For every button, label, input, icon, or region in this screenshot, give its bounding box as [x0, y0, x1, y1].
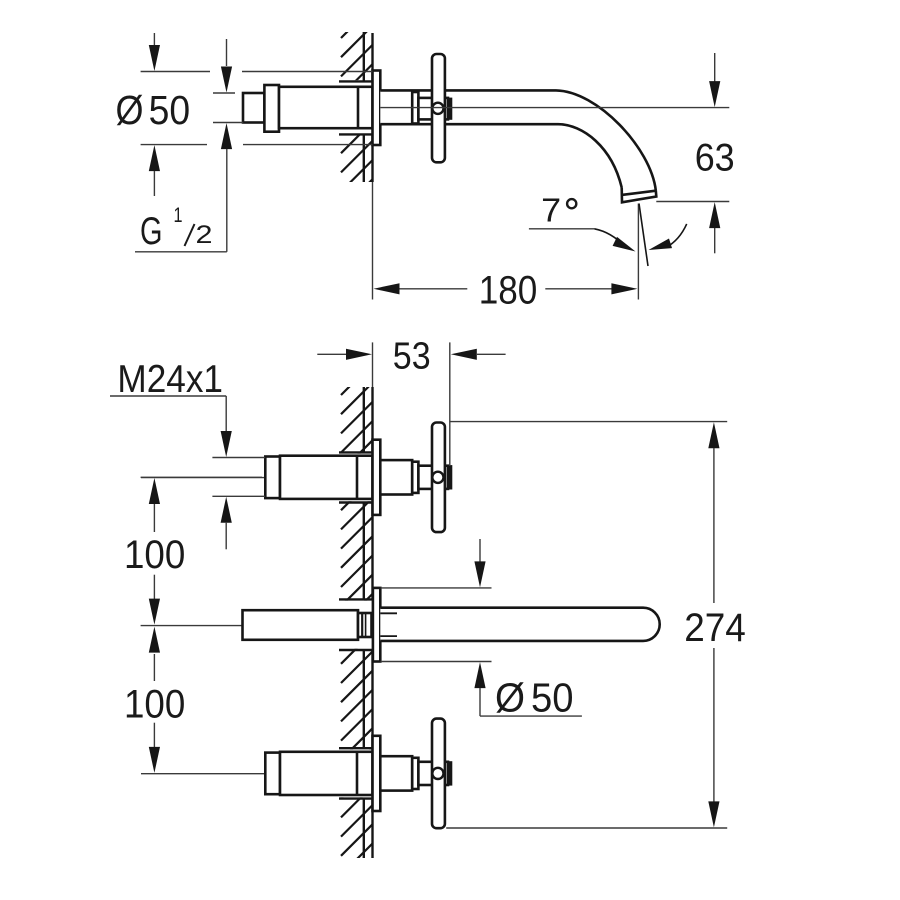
- svg-text:50: 50: [531, 675, 574, 721]
- spindle (lower valve): [380, 756, 412, 790]
- escutcheon rosette (side view): [373, 71, 381, 146]
- Ø50 lower extension line: [141, 144, 207, 146]
- valve body groove (lower valve): [356, 752, 359, 795]
- wall face line (top view): [371, 33, 373, 81]
- valve body groove near wall: [357, 87, 360, 128]
- G1/2 label underline: [135, 251, 227, 253]
- 53 dimension line right part: [477, 353, 506, 355]
- 7deg right arc with arrowhead: [666, 224, 687, 248]
- valve cartridge body: [279, 87, 373, 128]
- valve body (lower valve): [280, 752, 373, 795]
- Ø50b down arrow: [479, 539, 481, 562]
- spout tube step lines: [380, 612, 397, 614]
- 180 extension line right (spout tip): [637, 204, 639, 300]
- spout inner (bottom) contour: [380, 124, 621, 187]
- wall face extension up to 53 dim: [372, 342, 374, 387]
- handle screw circle (side view): [432, 103, 443, 114]
- handle collar (upper valve): [412, 462, 418, 493]
- valve axis centerline (doubles as 63-dim upper extension): [380, 107, 729, 109]
- M24x1 lower extension line: [212, 495, 265, 497]
- union nut cap (lower valve): [265, 753, 280, 795]
- spout connector detail lines: [361, 613, 363, 637]
- handle screw circle (upper valve): [432, 472, 443, 483]
- wall section hatching (top view): [341, 7, 373, 211]
- wall section hatching (bottom view): [341, 364, 373, 876]
- pipe centerline stub (lower valve): [141, 773, 265, 775]
- 100a lower shaft and down arrow: [153, 575, 155, 600]
- spout outer (top) contour: [380, 90, 656, 190]
- M24x1 up arrow: [221, 497, 232, 523]
- spout escutcheon: [373, 588, 380, 662]
- svg-text:180: 180: [479, 269, 538, 313]
- svg-text:100: 100: [124, 533, 185, 577]
- wall face extension line down to 180 dim: [372, 182, 374, 300]
- 274 down arrow: [713, 648, 715, 804]
- G1/2 upper extension line: [213, 92, 235, 94]
- M24x1 leader with down arrow: [225, 396, 227, 434]
- svg-text:M24x1: M24x1: [117, 358, 223, 401]
- Ø50b lower extension line: [381, 661, 492, 663]
- wall opening gap (top view): [337, 80, 381, 135]
- spout tube (side view) white fill: [380, 90, 656, 202]
- wall opening edges (bottom view): [339, 451, 373, 453]
- 7deg left arc with arrowhead: [594, 229, 625, 247]
- 7deg spray direction line (tilted 7deg): [639, 204, 648, 267]
- handle hub front plate (upper valve): [448, 466, 451, 488]
- handle hub (side view): [418, 98, 448, 120]
- valve threaded inlet tip G1/2: [243, 93, 264, 123]
- wall opening gaps (bottom view): [337, 454, 381, 502]
- svg-text:100: 100: [124, 682, 185, 726]
- 100a upper extension line (valve axis): [141, 476, 262, 478]
- svg-text:7: 7: [541, 192, 561, 229]
- svg-text:274: 274: [684, 606, 746, 650]
- 274 up arrow: [708, 422, 719, 448]
- valve union nut ring: [264, 85, 279, 132]
- spout tube (front projection): [380, 608, 659, 641]
- G1/2 lower extension line: [213, 122, 243, 124]
- wall opening edge top (top view): [339, 80, 373, 82]
- wall face line (bottom view): [371, 387, 373, 452]
- Ø50b upper extension line: [381, 587, 492, 589]
- union nut cap (upper valve): [265, 457, 280, 499]
- M24x1 label underline: [110, 395, 226, 397]
- 100a up arrow: [149, 478, 160, 504]
- svg-text:50: 50: [149, 87, 191, 133]
- svg-text:Ø: Ø: [495, 675, 525, 721]
- svg-text:53: 53: [393, 335, 431, 377]
- Ø50b label underline: [480, 715, 582, 717]
- escutcheon (upper valve): [373, 440, 381, 515]
- svg-text:G: G: [140, 210, 163, 253]
- 274 lower extension line: [446, 827, 727, 829]
- handle hub front plate (lower valve): [448, 762, 451, 784]
- G1/2 up arrow leader: [221, 123, 232, 149]
- svg-text:1: 1: [174, 204, 183, 227]
- spout aerator end band: [622, 188, 657, 203]
- 100b lower shaft and down arrow: [153, 723, 155, 748]
- valve body (upper valve): [280, 456, 373, 499]
- handle hub (upper valve): [418, 466, 448, 489]
- 63 lower extension line: [656, 201, 729, 203]
- pipe centerline stub (upper valve): [141, 477, 265, 479]
- cross-handle bar (side view): [432, 54, 445, 162]
- wall inner line (top view): [363, 32, 365, 81]
- 180 dimension line: [399, 288, 467, 290]
- 100b up arrow: [149, 627, 160, 653]
- handle hub front plate (side view): [448, 99, 451, 119]
- cross-handle bar (lower valve): [432, 719, 445, 829]
- Ø50 down arrow: [153, 33, 155, 47]
- handle hub (lower valve): [418, 762, 448, 785]
- 274 upper extension line: [450, 421, 728, 423]
- 180 left arrow: [374, 283, 400, 294]
- M24x1 upper extension line: [212, 457, 265, 459]
- svg-text:2: 2: [196, 221, 213, 249]
- 53 right arrow (points left at handle face): [451, 349, 477, 360]
- wall inner line (bottom view): [363, 387, 365, 452]
- 63 up arrow: [709, 202, 720, 228]
- 53 dimension line left part: [317, 353, 346, 355]
- valve body groove (upper valve): [356, 456, 359, 499]
- spout wall connector: [358, 613, 372, 637]
- Ø50 up arrow: [149, 145, 160, 171]
- 180 right arrow: [611, 283, 637, 294]
- escutcheon (lower valve): [373, 736, 381, 811]
- cross-handle bar (upper valve): [432, 423, 445, 533]
- svg-text:Ø: Ø: [116, 87, 144, 133]
- spout inlet centerline stub: [141, 625, 243, 627]
- G1/2 down arrow: [226, 39, 228, 66]
- spindle (upper valve): [380, 460, 412, 494]
- svg-text:63: 63: [695, 137, 735, 180]
- handle collar (lower valve): [412, 758, 418, 789]
- handle screw circle (lower valve): [432, 768, 443, 779]
- spout inlet body: [243, 610, 359, 640]
- 53 left arrow (points right at wall): [346, 349, 372, 360]
- wall opening edge bottom (top view): [339, 133, 373, 135]
- handle collar (side view): [412, 92, 418, 124]
- Ø50 upper extension line: [141, 71, 210, 73]
- 63 down arrow: [714, 53, 716, 82]
- 7deg label leader line: [529, 228, 595, 230]
- Ø50b up arrow leader: [474, 662, 485, 688]
- 53 right extension line: [449, 342, 451, 466]
